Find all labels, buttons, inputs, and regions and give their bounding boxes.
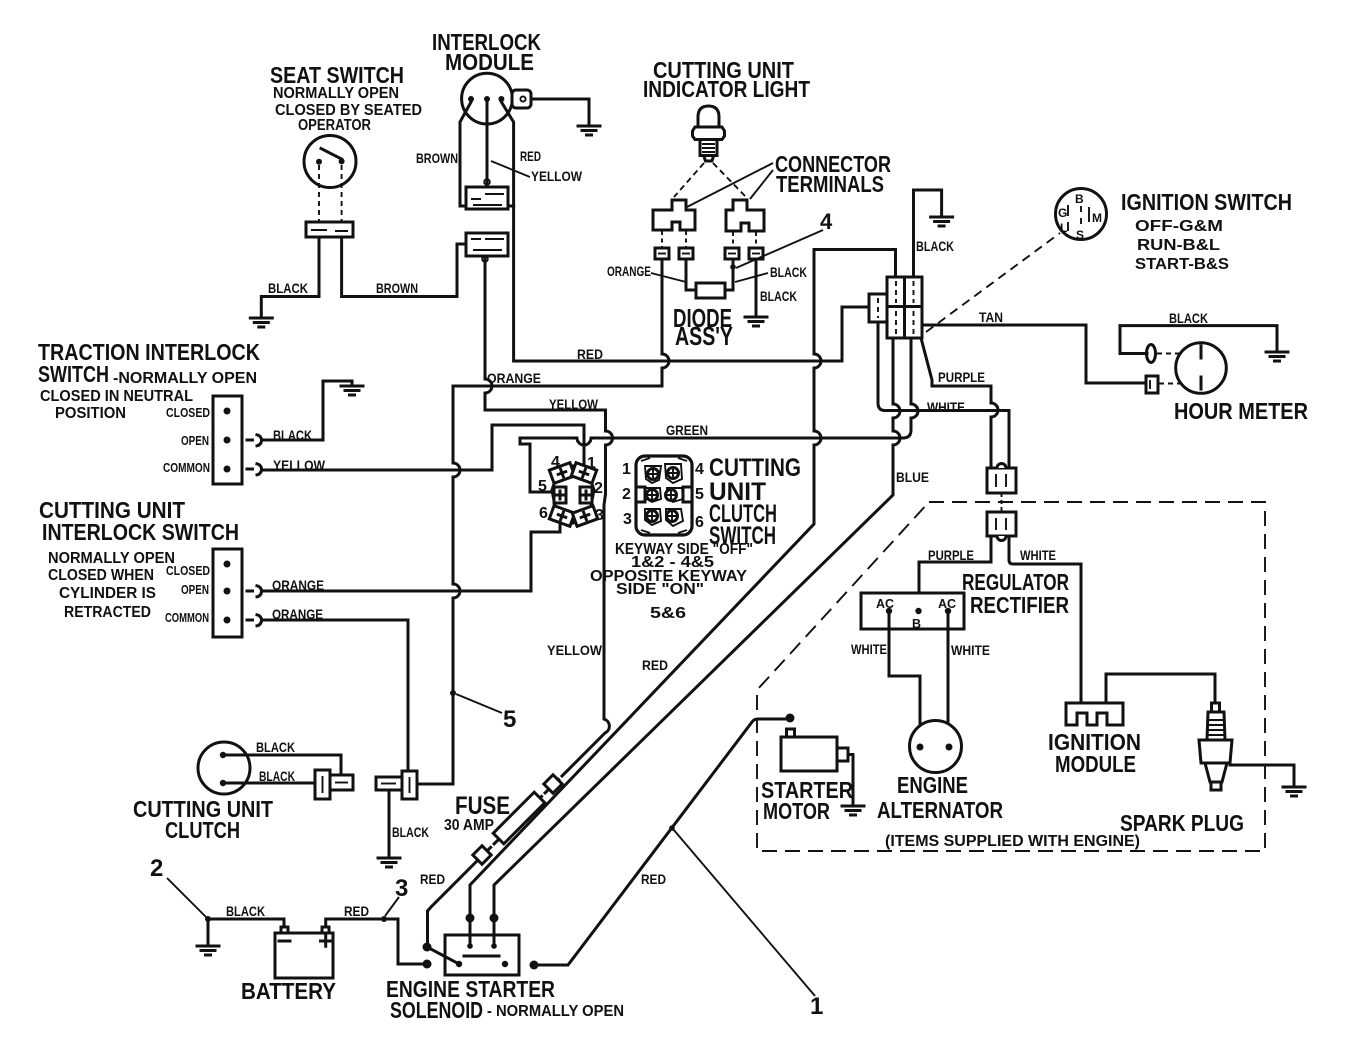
clutch connector pair left	[315, 770, 353, 799]
svg-text:30 AMP: 30 AMP	[444, 817, 494, 834]
items supplied dashed box	[757, 502, 1265, 851]
traction interlock switch	[38, 339, 260, 484]
terminal hook cutting unit common	[247, 615, 262, 626]
wire brown seat switch to interlock module connector	[342, 237, 466, 297]
svg-text:MOTOR: MOTOR	[763, 798, 830, 824]
wire purple ignition to connector	[921, 338, 998, 468]
wire starter motor to ground	[848, 755, 853, 805]
regulator rectifier	[861, 569, 1069, 631]
wire dashed terminal pins	[662, 231, 756, 248]
clutch feed connector pair	[376, 771, 417, 799]
svg-text:FUSE: FUSE	[455, 792, 510, 820]
svg-text:BATTERY: BATTERY	[241, 978, 336, 1004]
svg-text:CYLINDER IS: CYLINDER IS	[59, 585, 156, 602]
svg-text:4: 4	[695, 461, 704, 478]
svg-text:START-B&S: START-B&S	[1135, 256, 1229, 273]
wire yellow main harness with fuse run	[485, 258, 613, 771]
svg-text:L: L	[1060, 221, 1067, 235]
svg-text:2: 2	[622, 486, 631, 503]
wire orange cutting unit open to clutch connector pin 6	[262, 524, 560, 591]
ignition module	[1048, 703, 1141, 777]
interlock module	[432, 29, 541, 124]
svg-text:AC: AC	[876, 597, 894, 611]
svg-text:G: G	[1058, 206, 1067, 220]
svg-text:- NORMALLY OPEN: - NORMALLY OPEN	[487, 1003, 624, 1020]
engine alternator	[877, 721, 1003, 824]
ignition switch connector	[869, 277, 922, 338]
ground seat switch	[250, 318, 272, 327]
svg-text:SWITCH: SWITCH	[38, 361, 109, 387]
svg-text:BROWN: BROWN	[376, 280, 418, 296]
svg-text:CLUTCH: CLUTCH	[165, 817, 240, 843]
wire black seat switch to ground	[261, 237, 319, 317]
svg-text:INTERLOCK SWITCH: INTERLOCK SWITCH	[42, 519, 239, 545]
svg-text:2: 2	[150, 855, 163, 882]
battery	[241, 927, 336, 1004]
cutting unit clutch switch connector (6-pin round)	[538, 454, 604, 526]
svg-text:5: 5	[695, 486, 704, 503]
cutting unit clutch switch	[622, 454, 801, 550]
wire tan ignition to hour meter	[922, 325, 1146, 383]
wire blue diagonal to solenoid	[494, 338, 900, 917]
svg-text:NORMALLY OPEN: NORMALLY OPEN	[48, 550, 175, 567]
svg-text:1: 1	[587, 455, 596, 472]
svg-text:5: 5	[538, 478, 547, 495]
svg-text:COMMON: COMMON	[165, 611, 209, 625]
svg-text:TAN: TAN	[979, 309, 1003, 325]
svg-text:ORANGE: ORANGE	[272, 606, 323, 622]
ground interlock module	[578, 126, 600, 135]
wire orange main harness	[417, 259, 669, 784]
svg-text:CLOSED: CLOSED	[166, 564, 210, 578]
connector lower interlock module	[466, 233, 508, 262]
wire black traction open to ground	[262, 381, 352, 440]
spark plug	[1120, 703, 1244, 836]
svg-text:BLACK: BLACK	[273, 427, 312, 443]
svg-text:6: 6	[539, 505, 548, 522]
keyway notes	[590, 541, 753, 622]
cutting unit indicator light	[643, 57, 810, 161]
svg-text:RED: RED	[344, 903, 369, 919]
svg-text:BLACK: BLACK	[268, 280, 308, 296]
svg-text:ASS'Y: ASS'Y	[675, 321, 733, 351]
svg-text:PURPLE: PURPLE	[928, 547, 974, 563]
wire red ignition connector B to diagonal	[470, 250, 896, 918]
svg-text:BLACK: BLACK	[770, 264, 807, 280]
svg-text:B: B	[1075, 192, 1084, 206]
svg-text:5&6: 5&6	[650, 605, 686, 622]
wire ignition module to spark plug	[1106, 674, 1215, 703]
svg-text:2: 2	[594, 480, 603, 497]
svg-text:NORMALLY OPEN: NORMALLY OPEN	[273, 85, 399, 102]
svg-text:ORANGE: ORANGE	[607, 263, 651, 279]
svg-text:TERMINALS: TERMINALS	[776, 171, 884, 197]
svg-text:M: M	[1092, 211, 1102, 225]
svg-text:RED: RED	[577, 346, 603, 362]
starter motor	[761, 714, 853, 825]
svg-text:OPERATOR: OPERATOR	[298, 117, 371, 134]
svg-text:BROWN: BROWN	[416, 150, 458, 166]
wire dashed ignition switch to connector	[926, 233, 1060, 332]
terminal lug 3	[725, 248, 739, 259]
svg-text:RUN-B&L: RUN-B&L	[1137, 237, 1220, 254]
svg-text:YELLOW: YELLOW	[273, 457, 326, 473]
wire dashed indicator light leads	[674, 163, 746, 197]
svg-text:GREEN: GREEN	[666, 422, 708, 438]
svg-text:COMMON: COMMON	[163, 461, 210, 475]
svg-text:PURPLE: PURPLE	[938, 369, 985, 385]
inline connector lower half	[987, 493, 1016, 541]
svg-text:OPEN: OPEN	[181, 434, 209, 448]
svg-text:WHITE: WHITE	[1020, 547, 1056, 563]
svg-text:AC: AC	[938, 597, 956, 611]
svg-text:6: 6	[695, 514, 704, 531]
svg-text:YELLOW: YELLOW	[547, 642, 603, 658]
diode assy	[673, 283, 733, 351]
fuse 30 amp	[444, 775, 562, 864]
svg-text:OPEN: OPEN	[181, 583, 209, 597]
svg-text:WHITE: WHITE	[927, 399, 965, 415]
ignition switch	[1056, 189, 1293, 274]
svg-text:YELLOW: YELLOW	[531, 168, 583, 184]
svg-text:RED: RED	[520, 148, 541, 164]
wire brown interlock module left pin	[460, 102, 471, 206]
node 1 dot	[669, 825, 675, 831]
svg-text:1: 1	[622, 461, 631, 478]
terminal lug 2	[679, 248, 693, 259]
svg-text:IGNITION SWITCH: IGNITION SWITCH	[1121, 189, 1292, 215]
svg-text:MODULE: MODULE	[445, 49, 534, 75]
svg-text:BLACK: BLACK	[226, 903, 265, 919]
terminal lug 4	[749, 248, 763, 259]
wire red interlock module right pin down	[501, 102, 513, 206]
svg-text:BLACK: BLACK	[259, 768, 295, 784]
svg-text:CLOSED IN NEUTRAL: CLOSED IN NEUTRAL	[40, 388, 193, 405]
svg-text:ORANGE: ORANGE	[272, 577, 324, 593]
svg-text:RETRACTED: RETRACTED	[64, 604, 151, 621]
wire black clutch lead 2	[223, 782, 315, 785]
svg-text:HOUR METER: HOUR METER	[1174, 398, 1308, 424]
svg-text:1: 1	[810, 993, 823, 1020]
svg-text:INDICATOR LIGHT: INDICATOR LIGHT	[643, 76, 810, 102]
wire black ignition connector to ground	[914, 190, 942, 277]
wire red battery positive to solenoid	[326, 919, 423, 964]
wire black diode lug4 to ground	[755, 259, 758, 316]
wire black clutch lead 1	[223, 755, 341, 775]
svg-text:BLACK: BLACK	[392, 824, 429, 840]
svg-text:(ITEMS SUPPLIED WITH ENGINE): (ITEMS SUPPLIED WITH ENGINE)	[885, 833, 1140, 850]
terminal hook traction open	[247, 435, 262, 446]
svg-text:BLACK: BLACK	[256, 739, 295, 755]
wire green main harness	[520, 338, 918, 492]
wire white connector to ignition module	[1009, 536, 1081, 702]
cutting unit clutch	[133, 742, 273, 843]
wire yellow interlock module center pin	[486, 102, 489, 186]
wire white regulator AC left to alternator	[889, 614, 920, 744]
svg-text:B: B	[912, 617, 921, 631]
engine starter solenoid	[386, 914, 624, 1024]
inline connector upper half	[987, 464, 1016, 494]
svg-text:3: 3	[395, 875, 408, 902]
svg-text:ORANGE: ORANGE	[487, 370, 541, 386]
wire spark plug to ground	[1230, 765, 1294, 786]
svg-text:5: 5	[503, 706, 516, 733]
wire orange cutting unit common to clutch feed connector	[262, 620, 408, 771]
wire black clutch feed to ground	[388, 790, 391, 856]
svg-text:4: 4	[551, 454, 560, 471]
connector terminals label	[687, 151, 891, 207]
svg-text:SPARK PLUG: SPARK PLUG	[1120, 810, 1244, 836]
wire yellow traction common to clutch connector pin 1	[262, 425, 584, 470]
wire diode lug2 to diode	[686, 259, 696, 290]
terminal lug 1	[655, 248, 669, 259]
wire white regulator AC right to alternator	[947, 614, 950, 744]
seat switch	[270, 62, 422, 237]
svg-text:SIDE "ON": SIDE "ON"	[616, 581, 704, 598]
svg-text:POSITION: POSITION	[55, 405, 126, 422]
svg-text:3: 3	[623, 511, 632, 528]
wire red main harness	[514, 206, 869, 361]
wire black battery negative to ground	[208, 919, 284, 944]
svg-text:SOLENOID: SOLENOID	[390, 997, 483, 1023]
svg-text:BLUE: BLUE	[896, 469, 929, 485]
svg-text:BLACK: BLACK	[916, 238, 954, 254]
svg-text:MODULE: MODULE	[1055, 751, 1136, 777]
connector terminal left	[653, 200, 695, 230]
terminal hook cutting unit open	[247, 586, 262, 597]
wire white ignition tab to connector	[878, 322, 1009, 468]
wire black hour meter to ground	[1120, 326, 1277, 354]
wire diode to lug3	[725, 259, 733, 290]
svg-text:BLACK: BLACK	[1169, 310, 1208, 326]
connector upper interlock module	[466, 187, 508, 209]
svg-text:CLOSED WHEN: CLOSED WHEN	[48, 567, 154, 584]
svg-text:-NORMALLY OPEN: -NORMALLY OPEN	[113, 370, 257, 387]
wire red solenoid to starter motor	[534, 719, 788, 965]
wire purple connector to regulator B	[919, 536, 991, 610]
svg-text:ENGINE: ENGINE	[897, 772, 968, 798]
hour meter	[1146, 343, 1308, 424]
svg-text:WHITE: WHITE	[951, 642, 990, 658]
svg-text:BLACK: BLACK	[760, 288, 797, 304]
svg-text:RED: RED	[642, 657, 668, 673]
svg-text:WHITE: WHITE	[851, 641, 887, 657]
svg-text:S: S	[1076, 228, 1084, 242]
node 5 dot	[450, 690, 456, 696]
connector terminal right	[726, 200, 764, 231]
svg-text:3: 3	[595, 507, 604, 524]
terminal hook traction common	[247, 464, 262, 475]
svg-text:YELLOW: YELLOW	[549, 396, 599, 412]
wire interlock module tab to ground	[531, 99, 589, 125]
cutting unit interlock switch	[39, 497, 242, 637]
node 4 junction dot	[730, 264, 736, 270]
svg-text:CLOSED: CLOSED	[166, 406, 210, 420]
svg-text:RED: RED	[420, 871, 445, 887]
svg-text:OFF-G&M: OFF-G&M	[1135, 218, 1223, 235]
svg-text:RECTIFIER: RECTIFIER	[970, 592, 1069, 618]
svg-text:ALTERNATOR: ALTERNATOR	[877, 797, 1003, 823]
svg-text:RED: RED	[641, 871, 666, 887]
